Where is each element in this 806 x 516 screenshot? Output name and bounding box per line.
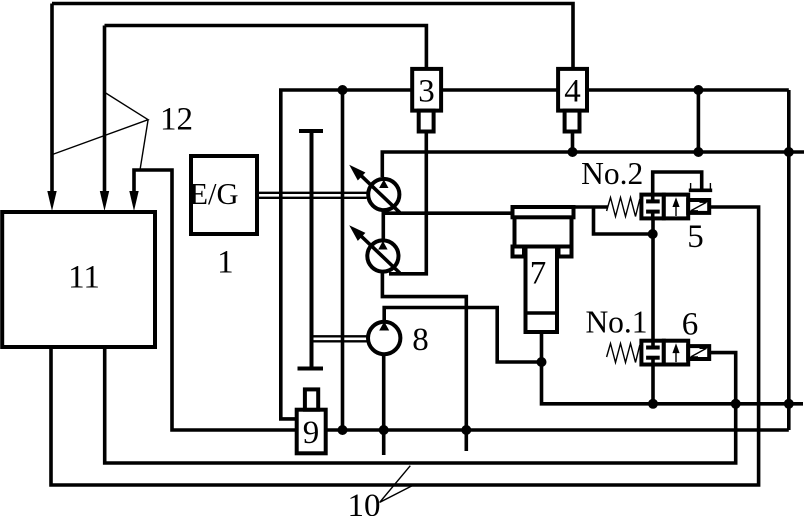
transmission shaft to pump 8 (double line) (310, 336, 367, 341)
svg-text:7: 7 (530, 256, 547, 292)
wire accumulator 7 top to valve 5 spring side (573, 205, 608, 209)
svg-text:8: 8 (412, 322, 429, 358)
valve 5 solenoid box (688, 200, 709, 213)
svg-text:12: 12 (160, 102, 193, 138)
controller box 11 (2, 212, 155, 347)
wire pump 8 top port to junction under accumulator 7 (384, 308, 541, 363)
accumulator 7 left wall (513, 217, 517, 255)
junction dot y90/x698 (693, 85, 703, 95)
wire arrow line 1 into controller 11 (50, 4, 54, 195)
svg-text:1: 1 (217, 245, 234, 281)
svg-text:4: 4 (564, 74, 581, 110)
label 10 with pointer lines (380, 466, 415, 503)
wire valve 5 top port to drain (653, 172, 702, 202)
accumulator 7 inner line (526, 311, 558, 315)
transmission bottom T bar (298, 367, 324, 371)
wire arrow line 3 from bottom bus B into controller 11 (134, 170, 789, 430)
junction dot line A / right vertical (784, 399, 794, 409)
engine box E/G (1) (191, 156, 257, 234)
valve 5 drain bracket (689, 189, 712, 193)
valve 5 left square (blocked) (641, 195, 663, 219)
wire pump 8 bottom port through line B (382, 355, 386, 455)
valve box 9 (297, 410, 326, 454)
valve 6 spring (607, 344, 642, 363)
sensor box 3 (412, 69, 441, 111)
accumulator 7 right foot (559, 247, 572, 257)
sensor box 4 (558, 69, 587, 111)
junction dot y90/x342 (338, 85, 348, 95)
wire pressure bus y152 with drop to pump P2 top (382, 152, 804, 177)
wire valve 6 bottom port to line A (651, 359, 655, 404)
svg-text:E/G: E/G (189, 177, 238, 211)
accumulator 7 body (526, 247, 558, 333)
label 12 with pointer lines (53, 92, 148, 154)
valve 6 left square (blocked) (641, 341, 663, 365)
junction dot line B / pump 8 (379, 425, 389, 435)
valve 6 right square (flow) (664, 341, 688, 365)
wire y90 line wrapping left down to valve box 9 (281, 90, 789, 419)
svg-text:No.2: No.2 (581, 156, 643, 191)
transmission shaft E/G to pump P2 (double line) (257, 193, 367, 198)
wire long vertical x342 from y90 to line B (341, 90, 345, 430)
accumulator 7 left foot (513, 247, 525, 257)
svg-text:3: 3 (418, 74, 435, 110)
wire pump P2 outlet to accumulator 7 (383, 211, 513, 215)
svg-text:9: 9 (303, 415, 320, 451)
junction dot bus/right vertical (784, 147, 794, 157)
wire pump P3 outlet down to line B (382, 272, 466, 451)
junction dot bus/sensor4 (568, 147, 578, 157)
arrowhead 1 (47, 191, 56, 211)
wire second top line from arrow2 to sensor 3 (105, 26, 427, 70)
wire sensor4 lower wire to bus (571, 130, 575, 152)
wire controller output 1 to solenoid of valve 5 (line D) (51, 207, 759, 485)
transmission top T bar (299, 129, 323, 133)
wire valve 5 bottom port down to valve 6 top port (651, 210, 655, 348)
arrowhead 2 (100, 191, 109, 211)
junction dot line A / solenoid 6 wire (731, 399, 741, 409)
svg-text:11: 11 (68, 260, 100, 296)
svg-text:5: 5 (687, 219, 704, 255)
valve 5 right square (flow) (664, 195, 688, 219)
svg-text:10: 10 (348, 488, 381, 516)
valve 5 spring (607, 198, 642, 217)
wire controller output 2 to solenoid of valve 6 (line C) (105, 346, 736, 463)
transmission gear stem (310, 130, 314, 368)
accumulator 7 cap (513, 207, 574, 217)
wire arrow line 2 into controller 11 (103, 26, 107, 195)
junction dot line B / pump P3 wire (461, 425, 471, 435)
wire top line from arrow1 to sensor 4 (52, 4, 573, 70)
pump 8 (fixed) (368, 322, 400, 354)
junction dot valve 5 bottom node (648, 229, 658, 239)
valve 6 solenoid box (688, 346, 709, 359)
pump P2 (variable, upper) (368, 179, 399, 210)
wire junction vertical x698 between y90 and bus y152 (697, 90, 701, 152)
junction dot line A / valve 6 (648, 399, 658, 409)
wire pump P2 to pump P3 connector (381, 210, 385, 240)
junction dot bus/x698 (693, 147, 703, 157)
svg-text:6: 6 (682, 307, 699, 343)
wire accumulator 7 outlet down and line A to right edge (542, 331, 804, 404)
pump P3 (variable, lower) (367, 240, 398, 271)
wire sensor3 lower wire down to pump P3 suction (389, 130, 426, 274)
arrowhead 3 (129, 191, 138, 211)
svg-text:No.1: No.1 (585, 305, 647, 340)
wire branch from accumulator line down to valve 5 bottom node (594, 207, 653, 234)
junction dot accumulator outlet node (537, 357, 547, 367)
junction dot line B / x342 (338, 425, 348, 435)
wire right vertical from y90 to line B (787, 90, 791, 430)
accumulator 7 right wall (570, 217, 574, 255)
